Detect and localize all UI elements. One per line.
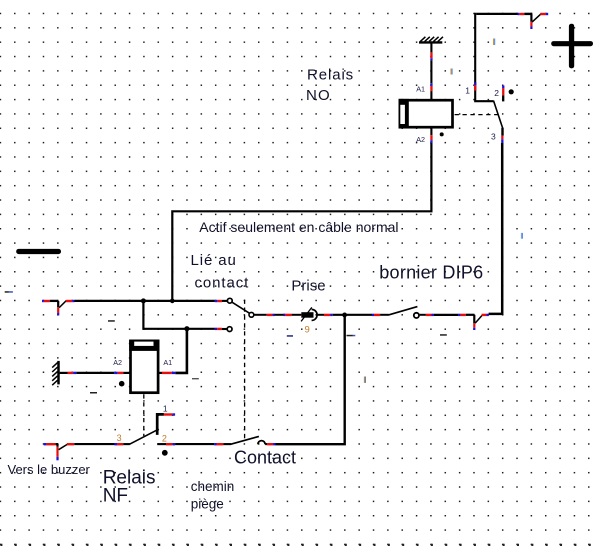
supply plus terminal (+) (551, 24, 593, 69)
wire tag I (prise down wire) (364, 377, 366, 383)
svg-text:Vers le buzzer: Vers le buzzer (8, 462, 91, 477)
wire from top ground to relay NO coil A1 (430, 43, 432, 100)
label bornier DIP6 (379, 262, 483, 282)
selector bottom throw terminal circle (227, 327, 232, 332)
relay NO contact lever 1-3 (494, 101, 503, 129)
junction dot at (187,328) (184, 326, 189, 331)
relay NF coil (A1/A2) (129, 340, 159, 393)
buzzer switch (bottom left, closed) (44, 443, 74, 460)
label A2 (relay NF) (113, 358, 122, 367)
handle dash (below main rail) (108, 320, 115, 322)
label piege (191, 497, 224, 512)
svg-text:Relais: Relais (307, 67, 354, 84)
switch S2 (left, closed, feeds main rail) (42, 300, 75, 316)
state dot near NF contact pin 2 (162, 450, 168, 456)
label contact (line 2) (195, 274, 250, 291)
svg-text:2: 2 (162, 434, 167, 444)
handle dash (below S4) (440, 334, 447, 336)
ground (top, at relay NO coil A1) (419, 37, 443, 43)
handle dash (below NF ground wire) (90, 392, 97, 394)
svg-text:Actif seulement en câble norma: Actif seulement en câble normal (199, 219, 398, 235)
label Lie au (line 1) (191, 252, 237, 269)
label 2 (contact NO) (494, 88, 499, 98)
svg-text:9: 9 (305, 324, 310, 335)
label 3 (contact NO) (491, 132, 496, 142)
label A2 (relay NO) (416, 135, 425, 144)
svg-text:Contact: Contact (234, 448, 296, 468)
junction dot at (143,301) (141, 298, 146, 303)
svg-text:3: 3 (117, 433, 122, 443)
handle dash (below prise junction) (347, 335, 356, 337)
svg-text:A2: A2 (113, 358, 122, 367)
switch S4 (notch, closed, right of bornier) (458, 314, 488, 330)
selector "Lié au contact" pin marks left top (215, 300, 222, 302)
wire vertical down to relay NO contact pin 1 (475, 13, 493, 101)
state dot near relay NO A2 (440, 132, 444, 136)
selector bottom throw lead (222, 328, 227, 330)
label Relais NO line 2 (306, 87, 331, 104)
relay NF contact pin 3 mark (114, 443, 129, 445)
relay NO contact pin 2 (up, open) (502, 85, 504, 101)
selector lever (232, 302, 250, 313)
label 3 (contact NF) (117, 433, 122, 443)
label 2 (contact NF) (162, 434, 167, 444)
ground (left, at relay NF coil A2) (52, 361, 58, 385)
handle dash (right of NF coil) (192, 378, 199, 379)
relay NO contact pin 1 mark (474, 82, 476, 90)
dashed mechanical link coil NO to contact (455, 114, 498, 116)
Contact switch (bottom, open with arc terminal) (214, 436, 275, 445)
relay NF coil pin A2 lead (left) (123, 372, 130, 374)
wire main left rail y=301 (74, 300, 215, 302)
label A1 (relay NO) (416, 85, 425, 94)
supply minus terminal (-) (16, 249, 61, 254)
state dot near relay NF A2 (119, 381, 125, 387)
wire from selector common to Prise and bornier (254, 314, 372, 316)
relay NO coil pin A2 mark (430, 129, 432, 143)
wire from buzzer switch to NF contact 3 (74, 443, 114, 445)
label A1 (relay NF) (163, 358, 172, 367)
bornier DIP6 switch (open) (372, 307, 434, 318)
wire tag I (top rail) (493, 39, 495, 46)
relay NF contact pin 1 (up right corner, open) (157, 413, 175, 435)
relay NF coil pin A1 mark (right) (159, 372, 175, 374)
label Contact (234, 448, 296, 468)
svg-text:NF: NF (103, 486, 128, 507)
handle dash (below selector common) (287, 335, 293, 337)
wire top rail from contact 1 to switch S1 (476, 13, 517, 15)
svg-text:chemin: chemin (191, 479, 235, 494)
state dot near contact pin 2 (509, 89, 514, 94)
dashed mechanical link selector to Contact switch (244, 300, 246, 442)
wire tag I (near ground NO) (451, 69, 453, 75)
wire branch down from (143,301) to lower throw of selector (143, 301, 215, 329)
svg-text:A2: A2 (416, 135, 425, 144)
selector common terminal circle (249, 312, 254, 317)
pin marks selector common / prise left (267, 314, 292, 316)
svg-text:1: 1 (163, 403, 168, 413)
pin marks ground-NF (red+blue) (68, 372, 124, 374)
relay NO coil (A1/A2) (399, 99, 453, 129)
svg-text:1: 1 (465, 85, 470, 95)
label 1 (contact NO) (465, 85, 470, 95)
wire from junction (344.6,315) down to Contact switch (275, 315, 344, 444)
svg-text:bornier DIP6: bornier DIP6 (379, 262, 483, 282)
svg-text:2: 2 (494, 88, 499, 98)
label Relais NF line 2 (103, 486, 128, 507)
relay NO contact pin 3 stub (501, 128, 503, 143)
svg-text:3: 3 (491, 132, 496, 142)
wire branch from (187,328) down to relay NF coil A1 (175, 329, 187, 373)
bottom edge dot row (0, 544, 598, 546)
label chemin (191, 479, 235, 494)
svg-text:Lié au: Lié au (191, 252, 237, 269)
label 1 (contact NF) (163, 403, 168, 413)
wire from ground to relay NF coil A2 (60, 372, 115, 374)
label Prise (291, 278, 325, 295)
label Relais NO line 1 (307, 67, 354, 84)
junction dot at (172,301) (170, 299, 175, 304)
svg-text:contact: contact (195, 274, 250, 291)
svg-text:Prise: Prise (291, 278, 325, 295)
label 9 (Prise) (305, 324, 310, 335)
handle dash (left of main rail) (5, 291, 13, 293)
wire tag I (right vertical) (521, 233, 523, 239)
Prise (socket) symbol (301, 307, 317, 321)
svg-text:A1: A1 (416, 85, 425, 94)
selector top throw terminal circle (227, 298, 232, 303)
relay NF contact pin 2 mark (157, 443, 175, 445)
relay NF contact lever 3-1 (130, 430, 158, 444)
label Vers le buzzer (8, 462, 91, 477)
wire from relay NO coil A2 down-left-down to junction (172,301) (172, 143, 431, 301)
label Relais NF line 1 (103, 467, 156, 488)
svg-text:A1: A1 (163, 358, 172, 367)
pin marks prise right (324, 314, 333, 316)
svg-text:NO: NO (306, 87, 331, 104)
wire from NF contact 2 to Contact switch left (175, 443, 214, 445)
wire from relay NO contact pin 3 down right side (489, 143, 503, 314)
wire between bornier DIP6 switch and notch switch S4 (434, 314, 459, 316)
selector top throw lead (222, 300, 227, 302)
dashed mechanical link coil NF to contact (143, 394, 145, 436)
switch S1 (top right, closed) (518, 13, 549, 29)
note Actif seulement en cable normal (199, 219, 398, 235)
svg-text:piège: piège (191, 497, 224, 512)
selector pin marks left bottom (215, 328, 222, 330)
junction dot at (344.6,315) (342, 313, 347, 318)
